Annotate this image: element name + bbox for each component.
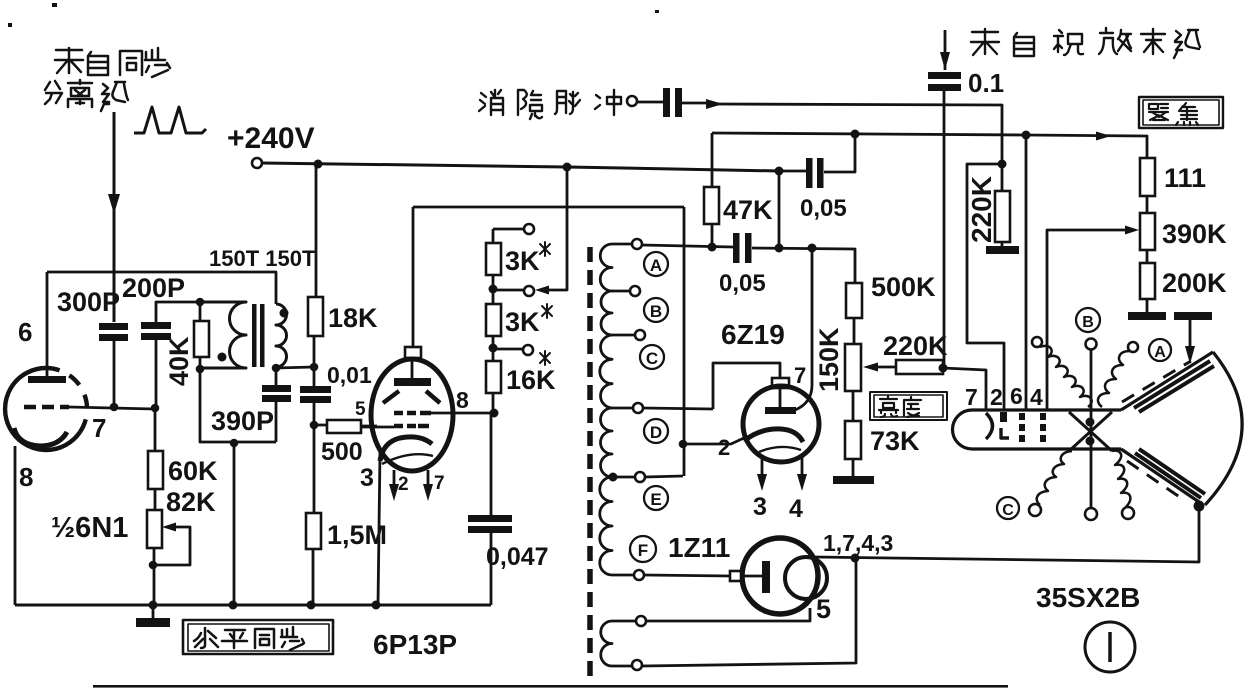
svg-text:40K: 40K bbox=[164, 336, 194, 386]
svg-text:A: A bbox=[1154, 344, 1166, 361]
waveform: sync pulses bbox=[134, 107, 206, 133]
yoke winding (horizontal) right bbox=[1112, 451, 1130, 508]
flyback filament winding bbox=[601, 621, 612, 666]
wire: tap F to 1Z11 bbox=[644, 575, 731, 576]
ground rail at bottom bbox=[15, 604, 491, 607]
tap B bbox=[612, 290, 630, 293]
node label D bbox=[644, 419, 668, 443]
svg-text:0,05: 0,05 bbox=[800, 195, 847, 222]
resistor 73K bbox=[845, 421, 861, 459]
svg-text:B: B bbox=[1082, 314, 1094, 331]
filament winding taps bbox=[612, 620, 636, 623]
svg-text:4: 4 bbox=[789, 495, 803, 523]
wire: 300P bottom to grid bbox=[113, 341, 116, 407]
svg-text:6Z19: 6Z19 bbox=[721, 319, 785, 350]
node label E bbox=[644, 486, 668, 510]
svg-text:6P13P: 6P13P bbox=[373, 629, 457, 660]
svg-text:150T 150T: 150T 150T bbox=[209, 246, 316, 271]
resistor 60K bbox=[148, 451, 163, 489]
svg-text:7: 7 bbox=[965, 384, 978, 410]
wire: cathode pin 3 down to rail bbox=[378, 452, 380, 605]
wire: 200P bottom down bbox=[155, 340, 158, 409]
wire: cathode line 1,7,4,3 to CRT bbox=[815, 506, 1199, 562]
tap D bbox=[612, 407, 633, 410]
text label: 消隐脉冲 (blanking pulse) bbox=[479, 90, 621, 119]
svg-text:5: 5 bbox=[816, 594, 831, 624]
scan specks bbox=[52, 3, 57, 7]
wire: 3K/3K/16K chain spine bbox=[492, 229, 495, 413]
wire: B+ down to flyback top bbox=[778, 171, 781, 247]
svg-text:+240V: +240V bbox=[227, 122, 315, 155]
resistor 18K bbox=[315, 164, 318, 297]
svg-text:6: 6 bbox=[1010, 383, 1023, 409]
wire: 82K wiper feedback jog bbox=[149, 561, 158, 570]
capacitor 200P bbox=[141, 322, 171, 329]
wire: cathode side line down to ground rail bbox=[14, 446, 17, 605]
svg-text:500: 500 bbox=[321, 438, 363, 466]
svg-text:7: 7 bbox=[92, 413, 106, 443]
CRT gun cathode bbox=[986, 413, 993, 439]
svg-text:7: 7 bbox=[794, 363, 806, 388]
resistor 3K (top) bbox=[486, 243, 501, 275]
wire: CRT pin7 feed bbox=[943, 368, 986, 410]
svg-text:4: 4 bbox=[1030, 384, 1043, 410]
boxed label: 水平同步 (horizontal sync) bbox=[183, 620, 333, 654]
potentiometer 150K bbox=[845, 344, 861, 391]
terminal: +240V bbox=[252, 158, 262, 168]
top cap of 6P13P bbox=[405, 347, 421, 358]
resistor 16K bbox=[486, 361, 501, 393]
wire: grid lead out to pin 7 node bbox=[69, 407, 155, 409]
transformer T1 secondary winding (right) bbox=[276, 304, 287, 367]
ground under 200K bbox=[1128, 312, 1166, 320]
boxed label: 亮度 (brightness) bbox=[870, 392, 947, 420]
svg-text:390P: 390P bbox=[211, 406, 274, 436]
svg-text:B: B bbox=[650, 302, 662, 321]
resistor 220K (horizontal) bbox=[896, 360, 943, 374]
svg-text:111: 111 bbox=[1164, 163, 1206, 193]
resistor 220K (vertical) bbox=[995, 191, 1010, 242]
cathode of 6N1 bbox=[14, 428, 67, 446]
diode V3 6Z19 envelope bbox=[743, 386, 819, 462]
svg-text:½6N1: ½6N1 bbox=[51, 512, 128, 544]
wire: video line down bbox=[943, 91, 946, 368]
svg-text:220K: 220K bbox=[966, 176, 997, 243]
heater pins 3,4 with arrows bbox=[762, 456, 802, 480]
svg-text:8: 8 bbox=[19, 462, 33, 492]
wire: +240V rail bbox=[262, 163, 779, 171]
ground symbol bbox=[152, 605, 155, 618]
CRT 35SX2B neck bbox=[953, 410, 1122, 449]
capacitor 0.05 (top) bbox=[779, 170, 806, 173]
resistor 1.5M bbox=[306, 513, 321, 549]
transformer T1 primary winding (left) bbox=[200, 302, 246, 368]
diode V4 1Z11 envelope bbox=[742, 538, 818, 614]
wire: video input arrow bbox=[944, 30, 947, 70]
wire: plate line over to transformer T1 bbox=[47, 272, 276, 304]
cathode of 6Z19 bbox=[744, 429, 803, 442]
yoke winding (vertical) left bbox=[1032, 337, 1042, 347]
heater entry notch bbox=[730, 571, 741, 581]
inner coating (dashes) top bbox=[1122, 361, 1191, 402]
node: 40K top bbox=[196, 298, 205, 307]
wire: focus wiper to CRT pin 4 bbox=[1047, 230, 1127, 410]
pentode V2 6P13P envelope bbox=[371, 359, 453, 471]
capacitor 0.05 (lower) bbox=[733, 233, 740, 263]
svg-text:3: 3 bbox=[753, 493, 767, 521]
wire: blanking corner down to 220K bbox=[1001, 135, 1004, 191]
tap C bbox=[612, 334, 635, 337]
svg-text:73K: 73K bbox=[870, 426, 920, 456]
wire: boost node into plate bbox=[795, 249, 812, 410]
resistor 500 (horizontal) bbox=[314, 425, 377, 426]
resistor 47K bbox=[711, 133, 714, 187]
svg-text:47K: 47K bbox=[723, 195, 773, 225]
svg-text:150K: 150K bbox=[814, 327, 844, 392]
capacitor 0.1 bbox=[928, 72, 961, 79]
triode U1 half 6N1 envelope (solid part) bbox=[5, 368, 80, 450]
svg-text:5: 5 bbox=[355, 399, 366, 420]
node label C (circled) bbox=[997, 497, 1019, 519]
wire: plate lead up bbox=[46, 272, 49, 376]
svg-text:60K: 60K bbox=[168, 456, 218, 486]
filament bar bbox=[741, 575, 762, 578]
node label B bbox=[644, 298, 668, 322]
phasing dot right winding bbox=[280, 309, 289, 318]
wire: B electrode line bbox=[1090, 350, 1093, 508]
svg-text:2: 2 bbox=[718, 435, 730, 460]
anode bar of 6P13P bbox=[411, 358, 414, 378]
svg-text:C: C bbox=[646, 349, 658, 368]
svg-text:16K: 16K bbox=[506, 365, 556, 395]
phasing dot left winding bbox=[218, 353, 227, 362]
svg-text:35SX2B: 35SX2B bbox=[1036, 582, 1140, 613]
capacitor 0.01 bbox=[300, 386, 331, 393]
svg-text:3K: 3K bbox=[505, 246, 540, 276]
node: pin8/16K junction bbox=[490, 409, 499, 418]
flyback transformer core (dashed) bbox=[587, 247, 593, 676]
svg-text:390K: 390K bbox=[1162, 219, 1227, 249]
svg-text:0,01: 0,01 bbox=[327, 362, 372, 388]
grids (dashes) bbox=[394, 411, 431, 416]
node label B (circled) bbox=[1076, 308, 1100, 332]
node label F bbox=[630, 536, 656, 562]
svg-text:18K: 18K bbox=[328, 303, 378, 333]
triode U1 envelope dashed part bbox=[46, 368, 87, 432]
resistor 40K bbox=[194, 321, 209, 357]
wire: 40K/390P bottom loop bbox=[200, 369, 276, 442]
node: 40K bottom bbox=[196, 365, 205, 374]
resistor 200K bbox=[1146, 250, 1149, 263]
wire: top cap lead bbox=[412, 207, 415, 347]
text label: 来自同步 分离级 (from sync separator) bbox=[45, 48, 170, 111]
capacitor C blanking bbox=[637, 101, 663, 104]
wire: tap E to 6P13P plate node bbox=[645, 476, 683, 477]
terminal: blanking input bbox=[627, 96, 637, 106]
node label C bbox=[640, 345, 664, 369]
wire: 150K to 73K bbox=[852, 391, 855, 421]
heater arc of 6Z19 bbox=[759, 447, 801, 452]
svg-text:7: 7 bbox=[434, 473, 445, 494]
svg-text:200K: 200K bbox=[1162, 268, 1227, 298]
tap F (bottom of main winding) bbox=[612, 574, 634, 577]
resistor 82K (pot) bbox=[147, 510, 162, 548]
svg-text:82K: 82K bbox=[166, 487, 216, 517]
svg-text:1Z11: 1Z11 bbox=[668, 532, 730, 563]
cathode of 6P13P bbox=[380, 437, 432, 461]
scan artifact: bottom edge bbox=[93, 685, 1008, 688]
svg-text:2: 2 bbox=[990, 384, 1003, 410]
svg-text:1,7,4,3: 1,7,4,3 bbox=[823, 530, 893, 556]
svg-text:F: F bbox=[638, 541, 648, 560]
resistor 3K (bottom) bbox=[486, 304, 501, 336]
transformer T1 core bbox=[252, 304, 257, 367]
resistor 500K bbox=[846, 283, 862, 318]
wire: 6P13P plate top line bbox=[413, 206, 684, 209]
node label A (circled) bbox=[1149, 339, 1171, 361]
heater pins 2,7 with arrows bbox=[394, 470, 428, 496]
terminal B bbox=[1086, 339, 1097, 350]
yoke crossing X bbox=[1069, 412, 1112, 451]
svg-text:3K: 3K bbox=[505, 307, 540, 337]
CRT electrode dots (pin4) bbox=[1040, 413, 1046, 420]
ground under 220K bbox=[1001, 242, 1004, 246]
tap E bbox=[609, 473, 618, 482]
top cap of 6Z19 (pin 7) bbox=[772, 378, 789, 388]
wire: pin 5 lead bbox=[361, 426, 394, 429]
wire: +240V feed with arrow into tap2 bbox=[549, 167, 567, 290]
svg-text:0,047: 0,047 bbox=[486, 543, 549, 571]
wire: sync input line with arrow bbox=[113, 112, 116, 322]
svg-text:500K: 500K bbox=[871, 272, 936, 302]
beam plates bbox=[383, 391, 440, 403]
svg-text:300P: 300P bbox=[57, 287, 120, 317]
node + tap 2 bbox=[489, 285, 498, 294]
svg-text:200P: 200P bbox=[122, 273, 185, 303]
wire: boost/focus line bbox=[712, 133, 1147, 158]
node: secondary bottom bbox=[272, 364, 281, 373]
flyback main winding bbox=[600, 244, 612, 575]
svg-text:6: 6 bbox=[18, 317, 32, 347]
wire: secondary bottom to 18K bottom bbox=[276, 367, 314, 368]
node: rail junctions bbox=[314, 160, 323, 169]
svg-text:C: C bbox=[1002, 502, 1014, 519]
wire: CRT pin 6 bbox=[1025, 135, 1028, 410]
svg-text:0,05: 0,05 bbox=[719, 270, 766, 297]
node: grid junctions bbox=[110, 403, 119, 412]
boxed label: 聚焦 (focus) bbox=[1139, 97, 1223, 128]
tap A (top) bbox=[612, 243, 632, 246]
wire: pin 5 to filament winding bbox=[646, 608, 810, 621]
svg-text:0.1: 0.1 bbox=[968, 68, 1004, 98]
anode plate bar of 6N1 bbox=[28, 376, 66, 383]
svg-text:3: 3 bbox=[360, 464, 374, 492]
capacitor 300P bbox=[99, 323, 128, 330]
text label: 来自视放末级 (from video output stage) bbox=[971, 28, 1200, 58]
wire: 6P13P plate node vertical bbox=[683, 207, 686, 476]
resistor 1M (focus top) bbox=[1140, 158, 1155, 196]
grid of 6N1 (dashed) bbox=[24, 405, 69, 410]
node + tap 3 bbox=[489, 344, 498, 353]
svg-text:E: E bbox=[650, 490, 661, 509]
wire: pin 8 lead bbox=[431, 412, 494, 415]
CRT funnel bbox=[1121, 352, 1213, 504]
inner coating (dashes) bottom bbox=[1127, 461, 1184, 500]
coating hatch bottom bbox=[1135, 449, 1205, 498]
svg-text:2: 2 bbox=[398, 474, 409, 495]
CRT grid marks (pin2) bbox=[1000, 412, 1007, 422]
node label A bbox=[644, 252, 668, 276]
capacitor 0.047 bbox=[490, 413, 493, 515]
anode bar of 6Z19 bbox=[779, 388, 782, 407]
wire: tap D up to 6Z19 top cap bbox=[713, 363, 780, 409]
wire: flyback top line bbox=[642, 245, 733, 247]
wire: blanking line to right with arrow bbox=[682, 103, 1002, 135]
CRT electrode dots (pin6) bbox=[1019, 413, 1025, 420]
capacitor 390P bbox=[275, 368, 278, 442]
label: circled 1 (figure number) bbox=[1085, 622, 1135, 672]
potentiometer 390K bbox=[1140, 213, 1155, 250]
yoke winding (horizontal) left to C bbox=[1037, 451, 1072, 505]
wire: filament winding bottom to cathode line bbox=[642, 558, 856, 666]
wire: bracket to CRT pin 2 bbox=[967, 164, 1004, 410]
svg-text:8: 8 bbox=[456, 387, 469, 413]
CRT screen face bbox=[1205, 352, 1242, 505]
wire: 6Z19 cathode pin2 lead bbox=[683, 437, 746, 444]
svg-text:A: A bbox=[650, 256, 662, 275]
tap 1 with terminal bbox=[493, 228, 524, 231]
node: video line junction bbox=[939, 364, 948, 373]
anode circle of 1Z11 bbox=[785, 557, 827, 599]
ground for aquadag bbox=[1174, 312, 1212, 320]
wire: wiper arrow from 220K bbox=[878, 366, 897, 369]
svg-text:D: D bbox=[650, 423, 662, 442]
svg-text:220K: 220K bbox=[883, 331, 948, 361]
coating hatch top bbox=[1134, 361, 1214, 412]
node: aquadag connection bbox=[1194, 501, 1205, 512]
ground under 73K bbox=[833, 476, 874, 484]
heater arc bbox=[382, 454, 433, 464]
wire: 200P top to 40K line bbox=[156, 302, 200, 322]
wire: down to ground rail bbox=[233, 443, 236, 605]
yoke winding (vertical) right to A bbox=[1128, 342, 1138, 352]
wire: tap D to 6Z19 grid line bbox=[643, 408, 713, 409]
